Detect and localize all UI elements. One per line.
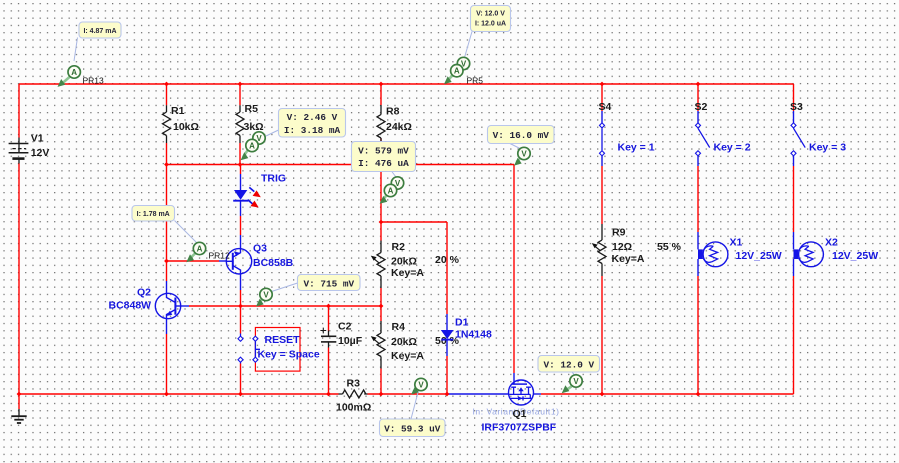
wire R1 column top (166, 84, 168, 105)
svg-text:V: V (263, 291, 269, 300)
switch S4 (599, 101, 655, 156)
svg-text:Key=A: Key=A (391, 267, 424, 279)
svg-text:A: A (249, 142, 255, 151)
switch S3 (790, 101, 846, 156)
probe V 12.0 V (538, 356, 600, 394)
svg-text:A: A (454, 67, 460, 76)
svg-text:Key=A: Key=A (391, 350, 424, 362)
svg-text:V: 715 mV: V: 715 mV (303, 279, 354, 290)
svg-text:R9: R9 (612, 227, 626, 239)
wire S4 column (601, 84, 603, 224)
wire gate of Q1 (blue net) (447, 393, 509, 395)
node mid R5 (238, 162, 243, 167)
svg-text:Key=A: Key=A (612, 253, 645, 265)
node top R1 (164, 82, 169, 87)
node top R5 (238, 82, 243, 87)
potentiometer R2 (371, 241, 460, 289)
wire left column lower (18, 164, 20, 395)
wire Q2 base to node (181, 305, 381, 307)
resistor R3 (336, 378, 371, 414)
resistor R5 (236, 103, 264, 143)
node bottom Q2 (164, 392, 169, 397)
svg-text:1N4148: 1N4148 (455, 329, 492, 341)
svg-text:20kΩ: 20kΩ (391, 256, 417, 268)
svg-text:R8: R8 (386, 106, 400, 118)
svg-text:Key = 1: Key = 1 (618, 142, 655, 154)
node bottom D1 gate (445, 392, 450, 397)
svg-text:I: 4.87 mA: I: 4.87 mA (83, 28, 116, 35)
wire bottom rail right of Q1 (541, 393, 794, 395)
probe V 16.0 mV (488, 126, 555, 166)
wire top rail (19, 83, 794, 85)
svg-text:X2: X2 (825, 237, 838, 249)
svg-text:R4: R4 (392, 321, 406, 333)
resistor R1 (163, 105, 199, 143)
svg-text:PR13: PR13 (83, 76, 105, 86)
node mid R1 (164, 162, 169, 167)
LED light arrow 2 (248, 200, 259, 208)
node bottom R4 (379, 392, 384, 397)
svg-text:D1: D1 (455, 317, 469, 329)
capacitor C2 (320, 321, 362, 348)
svg-text:12V_25W: 12V_25W (832, 250, 878, 262)
svg-text:R5: R5 (245, 103, 259, 115)
wire R9 column bottom (601, 276, 603, 394)
potentiometer R9 (592, 224, 682, 276)
ground (11, 409, 26, 423)
probe R8 voltmeter+ammeter (352, 142, 416, 204)
svg-text:A: A (197, 245, 203, 254)
wire LED column (240, 165, 242, 249)
svg-text:20kΩ: 20kΩ (391, 336, 417, 348)
svg-text:V: 12.0 V: V: 12.0 V (543, 360, 594, 371)
svg-text:V: V (573, 377, 579, 386)
wire R2 column (380, 222, 382, 306)
node bottom battery (17, 392, 22, 397)
svg-text:V1: V1 (31, 133, 44, 145)
lamp X2 (794, 237, 879, 267)
svg-text:V: 59.3 uV: V: 59.3 uV (384, 424, 441, 435)
wire S2 column (697, 84, 699, 232)
switch S2 (695, 101, 751, 156)
pushbutton RESET (238, 328, 320, 372)
resistor R8 (377, 105, 412, 143)
svg-text:C2: C2 (338, 321, 352, 333)
node R2 top branch (379, 220, 384, 225)
transistor Q3 BC858B (226, 243, 293, 275)
svg-text:10kΩ: 10kΩ (173, 121, 199, 133)
svg-text:RESET: RESET (265, 334, 301, 346)
svg-text:Q2: Q2 (137, 287, 151, 299)
svg-text:R1: R1 (171, 105, 185, 117)
probe PR12 ammeter (132, 206, 230, 263)
node bottom RESET (238, 392, 243, 397)
wire Q3 emitter to base node (240, 274, 242, 306)
svg-text:12Ω: 12Ω (612, 241, 632, 253)
svg-text:12V_25W: 12V_25W (736, 250, 782, 262)
wire bottom rail left of R3 (19, 393, 339, 395)
wire D1 column (446, 222, 448, 394)
probe V 715 mV (256, 275, 360, 307)
wire R5 column bottom (239, 143, 241, 165)
svg-text:Q3: Q3 (253, 243, 267, 255)
wire R5 column top (239, 84, 241, 105)
svg-text:IRF3707ZSPBF: IRF3707ZSPBF (482, 422, 557, 434)
MOSFET Q1 IRF3707ZSPBF (473, 380, 560, 434)
svg-text:R3: R3 (347, 378, 361, 390)
svg-text:V: 12.0 V: V: 12.0 V (476, 11, 505, 18)
lamp X1 (698, 237, 782, 267)
svg-text:PR5: PR5 (467, 76, 484, 86)
probe PR13 ammeter (58, 22, 122, 87)
svg-text:12V: 12V (31, 147, 50, 159)
svg-text:R2: R2 (392, 241, 406, 253)
node base rail (164, 259, 169, 264)
svg-text:I: 3.18 mA: I: 3.18 mA (284, 125, 341, 136)
svg-text:I: 476 uA: I: 476 uA (358, 158, 409, 169)
wire battery to ground (18, 394, 20, 409)
svg-text:BC848W: BC848W (109, 300, 152, 312)
svg-text:I: 12.0 uA: I: 12.0 uA (475, 21, 506, 28)
probe PR5 voltmeter+ammeter (444, 6, 511, 86)
node bottom C2 (326, 392, 331, 397)
svg-text:20 %: 20 % (435, 254, 460, 266)
probe V 59.3 uV (380, 378, 446, 436)
wire X2 column (793, 232, 795, 394)
wire X1 column (697, 232, 699, 394)
wire Q2 emitter (166, 319, 168, 395)
node y306 R2R4 (379, 304, 384, 309)
wire Q2 collector (166, 261, 168, 294)
svg-text:Key = 2: Key = 2 (714, 142, 751, 154)
svg-text:S4: S4 (599, 101, 612, 113)
node top R8 (379, 82, 384, 87)
node top S4 (600, 82, 605, 87)
wire R4 column (380, 306, 382, 394)
LED TRIG (233, 173, 286, 201)
wire S3 column (793, 84, 795, 232)
svg-text:A: A (71, 68, 77, 77)
svg-text:10µF: 10µF (338, 335, 363, 347)
wire base rail y261 (167, 260, 227, 262)
svg-text:Key = Space: Key = Space (258, 349, 320, 361)
svg-text:X1: X1 (730, 237, 743, 249)
LED light arrow 1 (249, 187, 260, 197)
probe R5 voltmeter+ammeter (241, 109, 346, 161)
transistor Q2 BC848W (109, 287, 182, 319)
svg-text:A: A (388, 187, 394, 196)
svg-text:V: V (418, 381, 424, 390)
potentiometer R4 (371, 321, 460, 369)
wire RESET column (240, 306, 242, 394)
svg-text:Key = 3: Key = 3 (809, 142, 846, 154)
svg-text:TRIG: TRIG (261, 173, 286, 185)
diode D1 (441, 317, 492, 341)
wire R1 column mid (166, 143, 168, 261)
node y306 RESET (238, 304, 243, 309)
node bottom R9 (600, 392, 605, 397)
svg-text:PR12: PR12 (209, 251, 231, 261)
svg-text:I: 1.78 mA: I: 1.78 mA (137, 211, 170, 218)
svg-text:BC858B: BC858B (253, 257, 294, 269)
wire middle rail y165 (167, 164, 515, 166)
wire branch to D1 column (381, 221, 447, 223)
wire bottom rail R3 to D1 node (368, 393, 448, 395)
wire C2 column (328, 306, 330, 394)
wire R8 column (380, 84, 382, 222)
svg-text:V: 16.0 mV: V: 16.0 mV (493, 130, 550, 141)
svg-text:S2: S2 (695, 101, 708, 113)
wire Q1 drain column (513, 165, 515, 381)
svg-text:S3: S3 (790, 101, 803, 113)
svg-text:Q1: Q1 (513, 408, 527, 420)
node y306 C2 (326, 304, 331, 309)
svg-text:V: 579 mV: V: 579 mV (358, 146, 409, 157)
node bottom X1 (696, 392, 701, 397)
svg-text:24kΩ: 24kΩ (386, 121, 412, 133)
svg-text:55 %: 55 % (657, 241, 682, 253)
wire Q1 source stub (534, 393, 542, 395)
svg-text:V: V (521, 150, 527, 159)
wire left column upper (18, 84, 20, 138)
svg-text:V: 2.46 V: V: 2.46 V (287, 112, 338, 123)
battery V1 (9, 133, 50, 164)
node top S2 (696, 82, 701, 87)
svg-text:100mΩ: 100mΩ (336, 402, 371, 414)
